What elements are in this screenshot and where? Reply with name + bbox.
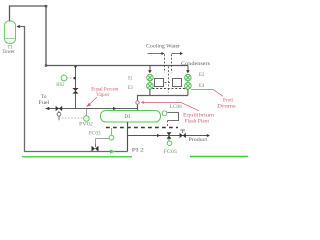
nozzle circle top-left: [147, 74, 154, 81]
wire: condensate manifold: [138, 89, 189, 111]
svg-text:Prod.: Prod.: [223, 97, 234, 103]
arrow: reflux into tower: [16, 25, 19, 28]
arrow: flow arrow on product line: [157, 134, 160, 137]
wire: dashed bottom of condensers: [153, 88, 186, 90]
level transmitter box: [168, 113, 179, 121]
svg-text:PV02: PV02: [79, 121, 93, 127]
instrument PV02 bubble: [84, 109, 90, 122]
svg-text:D1: D1: [125, 114, 131, 120]
svg-text:LC08: LC08: [170, 104, 182, 110]
tower T1: [5, 21, 16, 43]
wire: green stream line bottom right: [190, 156, 248, 158]
svg-text:FC05: FC05: [164, 149, 178, 155]
wire: FC03 to dashed row: [111, 128, 113, 135]
valve PV01 on fuel line (bowtie + actuator below): [56, 106, 63, 120]
node: HS2 signal junction: [74, 77, 76, 79]
arrow: cooling water supply: [148, 52, 165, 73]
wire: dashed middle vertical: [168, 67, 170, 93]
wire: dashed level signal: [167, 121, 169, 128]
valve HS2 (vertical bowtie): [72, 88, 78, 94]
svg-text:FC03: FC03: [89, 131, 101, 137]
svg-text:PI 2: PI 2: [132, 147, 144, 153]
svg-text:Product: Product: [189, 137, 208, 143]
valve hand (product line): [180, 130, 186, 138]
instrument FC03 bubble: [109, 135, 114, 140]
annotation red: Equal Percent Vapor: [86, 86, 119, 107]
arrow: to fuel (left): [46, 107, 50, 110]
svg-text:Flash Plant: Flash Plant: [185, 119, 210, 125]
nozzle circle top-right: [185, 74, 192, 81]
annotation red: arrow + leader to Equilibrium Flash Plant: [141, 101, 199, 111]
valve FC03 (on reflux line): [92, 139, 111, 152]
instrument LC08 bubble: [162, 111, 167, 116]
nozzle circle bottom-left: [147, 83, 154, 90]
svg-text:Condensers: Condensers: [181, 61, 210, 67]
arrow: down on branch: [74, 66, 77, 69]
arrow: green flow on reflux line: [110, 150, 116, 154]
wire: product line: [128, 135, 208, 137]
exchanger body left: [155, 79, 164, 87]
node: corner dot top: [45, 5, 48, 7]
wire: reflux line bottom + riser + tower entry: [20, 27, 128, 152]
annotation red: Prod. Drums: [217, 97, 236, 109]
wire: branch down to fuel line at x76: [75, 66, 77, 109]
wire: dashed row under drum: [106, 127, 178, 129]
wire: dashed link HS2 to branch: [67, 77, 73, 79]
svg-text:E1: E1: [128, 77, 133, 82]
wire: nozzle pair connectors: [150, 80, 188, 83]
svg-text:Tower: Tower: [2, 49, 15, 55]
annotation red: circle node on drum inlet: [136, 101, 139, 104]
svg-text:Drums: Drums: [217, 104, 236, 110]
wire: dashed signal to PV02: [62, 117, 84, 119]
svg-text:Fuel: Fuel: [38, 100, 49, 106]
svg-text:E2: E2: [199, 73, 205, 78]
condenser feed drop right: [186, 66, 190, 74]
svg-text:E3: E3: [128, 86, 133, 91]
wire: overhead vapor pipe from tower top: [10, 6, 189, 66]
svg-text:E4: E4: [199, 84, 205, 89]
wire: dashed middle horizontal: [165, 82, 172, 84]
arrow: flow on fuel line: [113, 107, 117, 110]
instrument HS2 bubble: [61, 75, 67, 81]
wire: green stream line bottom left: [22, 156, 132, 158]
arrow: cooling water return: [172, 52, 184, 73]
exchanger body right: [173, 79, 182, 87]
node: corner dot header: [45, 64, 47, 66]
annotation red: Equilibrium Flash Plant: [183, 113, 215, 125]
arrow: product right: [207, 134, 210, 137]
svg-text:Vapor: Vapor: [96, 92, 110, 98]
nozzle circle bottom-right: [185, 83, 192, 90]
svg-text:HS2: HS2: [56, 82, 65, 88]
wire: drum liquid outlet: [127, 122, 129, 152]
drum D1: [101, 111, 161, 123]
condenser feed drop left: [148, 66, 152, 74]
svg-text:Cooling Water: Cooling Water: [146, 43, 180, 49]
annotation red: leader to Prod. Drums: [191, 90, 223, 97]
wire: To-Fuel line: [46, 108, 138, 110]
valve FC05 (control valve + bubble): [167, 132, 172, 145]
